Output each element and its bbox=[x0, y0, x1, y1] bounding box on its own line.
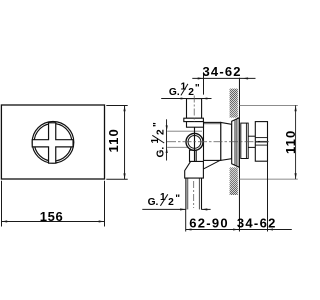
svg-text:G.: G. bbox=[148, 197, 159, 208]
svg-text:2: 2 bbox=[168, 197, 174, 208]
svg-text:110: 110 bbox=[106, 129, 121, 152]
svg-text:34-62: 34-62 bbox=[203, 64, 241, 79]
svg-text:110: 110 bbox=[283, 131, 298, 154]
svg-text:": " bbox=[175, 194, 180, 205]
svg-text:34-62: 34-62 bbox=[237, 216, 276, 231]
svg-text:62-90: 62-90 bbox=[189, 216, 227, 231]
svg-text:G.: G. bbox=[169, 87, 180, 98]
svg-text:2: 2 bbox=[156, 129, 167, 135]
svg-text:": " bbox=[152, 122, 163, 127]
svg-text:": " bbox=[195, 83, 200, 94]
svg-text:156: 156 bbox=[40, 209, 63, 224]
svg-text:2: 2 bbox=[188, 87, 194, 98]
svg-text:G.: G. bbox=[156, 147, 167, 158]
